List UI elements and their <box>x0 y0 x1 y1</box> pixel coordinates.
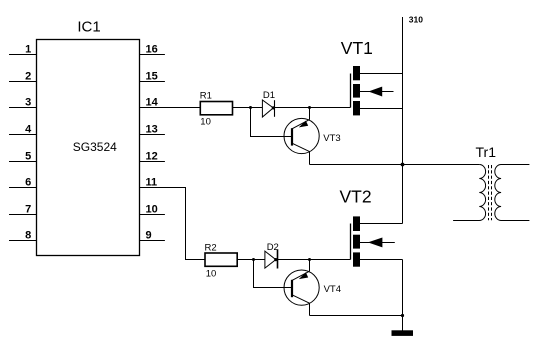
svg-text:9: 9 <box>146 229 152 241</box>
pin 3 lead <box>9 107 37 109</box>
wire rail to VT2 drain <box>360 223 403 225</box>
node junction dot R2/D2/VT4-base <box>252 258 255 261</box>
svg-text:2: 2 <box>25 70 31 82</box>
VT2 body arrow lead <box>360 242 395 244</box>
svg-text:6: 6 <box>25 176 31 188</box>
svg-text:15: 15 <box>146 70 158 82</box>
pin 12 lead <box>140 161 165 163</box>
svg-text:3: 3 <box>25 96 31 108</box>
wire junction down to VT4 base <box>254 260 292 288</box>
pin 16 lead <box>140 54 165 56</box>
svg-text:14: 14 <box>146 96 159 108</box>
wire VT2 source rail down to ground <box>402 260 404 331</box>
wire down to VT3 collector <box>309 108 311 120</box>
node dot rail/transformer junction <box>401 163 405 167</box>
VT1 body arrow head <box>368 87 382 97</box>
pin 7 lead <box>9 214 37 216</box>
transformer Tr1 secondary winding <box>495 165 530 221</box>
pin 2 lead <box>9 81 37 83</box>
svg-text:12: 12 <box>146 150 158 162</box>
MOSFET VT1 body bar <box>353 84 360 98</box>
pin 5 lead <box>9 161 37 163</box>
pin 6 lead <box>9 187 37 189</box>
svg-text:VT1: VT1 <box>341 38 373 58</box>
svg-text:10: 10 <box>206 268 217 279</box>
svg-text:13: 13 <box>146 123 158 135</box>
VT2 body arrow head <box>368 238 383 248</box>
pin 10 lead <box>140 214 165 216</box>
svg-text:SG3524: SG3524 <box>73 140 117 154</box>
diode D1 <box>262 100 275 117</box>
wire VT4 emitter to ground rail <box>310 315 403 317</box>
transistor VT4 <box>284 270 319 305</box>
MOSFET VT1 source bar <box>353 101 360 115</box>
pin 8 lead <box>9 240 37 242</box>
MOSFET VT2 source bar <box>353 252 360 266</box>
pin 1 lead <box>9 54 37 56</box>
svg-text:R2: R2 <box>205 242 217 253</box>
pin 9 lead <box>140 240 165 242</box>
wire down to VT4 collector <box>309 260 311 272</box>
svg-text:310: 310 <box>409 14 423 24</box>
pin 15 lead <box>140 81 165 83</box>
wire R2 to D2 <box>237 259 265 261</box>
svg-text:10: 10 <box>146 203 158 215</box>
svg-text:10: 10 <box>200 116 211 127</box>
transformer Tr1 primary winding <box>453 165 485 221</box>
resistor R2 <box>205 253 237 266</box>
transformer Tr1 core <box>488 165 490 220</box>
pin 14 lead <box>140 107 201 109</box>
svg-text:R1: R1 <box>200 91 212 102</box>
VT1 body arrow lead <box>360 91 394 93</box>
wire VT3 emitter to transformer node <box>310 164 480 166</box>
svg-text:1: 1 <box>25 43 31 55</box>
wire VT3 emitter down <box>309 152 311 165</box>
svg-text:D1: D1 <box>263 90 275 101</box>
svg-text:5: 5 <box>25 150 31 162</box>
VT1 drain lead <box>360 73 403 75</box>
svg-text:VT3: VT3 <box>323 133 340 144</box>
310V power rail <box>402 17 404 224</box>
node dot VT4 emitter / ground rail <box>401 314 404 317</box>
wire R1 to D1 <box>233 107 263 109</box>
svg-text:8: 8 <box>25 229 31 241</box>
wire D1 to VT1 gate <box>275 107 351 109</box>
MOSFET VT1 gate line <box>350 74 352 108</box>
svg-text:Tr1: Tr1 <box>476 144 497 160</box>
MOSFET VT2 drain bar <box>353 216 360 231</box>
svg-text:4: 4 <box>25 123 32 135</box>
resistor R1 <box>200 102 232 115</box>
pin 13 lead <box>140 134 165 136</box>
node junction dot R1/D1/VT3-base <box>249 106 252 109</box>
svg-text:7: 7 <box>25 203 31 215</box>
svg-text:11: 11 <box>146 176 158 188</box>
svg-text:IC1: IC1 <box>77 19 100 36</box>
pin 11 lead <box>140 188 206 260</box>
node junction dot VT3 collector tee <box>308 106 311 109</box>
MOSFET VT1 drain bar <box>353 66 360 80</box>
IC1 body <box>37 40 140 256</box>
MOSFET VT2 gate line <box>350 224 352 260</box>
transistor VT3 <box>284 118 319 153</box>
MOSFET VT2 body bar <box>353 235 360 249</box>
svg-text:16: 16 <box>146 43 158 55</box>
wire junction down to VT3 base <box>251 108 292 137</box>
diode D2 <box>265 250 278 269</box>
wire VT4 emitter down <box>309 303 311 315</box>
VT2 source lead <box>360 259 403 261</box>
svg-text:VT4: VT4 <box>324 284 341 295</box>
ground symbol <box>392 330 414 336</box>
svg-text:D2: D2 <box>267 242 279 253</box>
node junction dot VT4 collector tee <box>308 258 311 261</box>
wire D2 to VT2 gate <box>278 259 351 261</box>
svg-text:VT2: VT2 <box>340 187 372 207</box>
pin 4 lead <box>9 134 37 136</box>
VT1 source lead <box>360 108 403 110</box>
